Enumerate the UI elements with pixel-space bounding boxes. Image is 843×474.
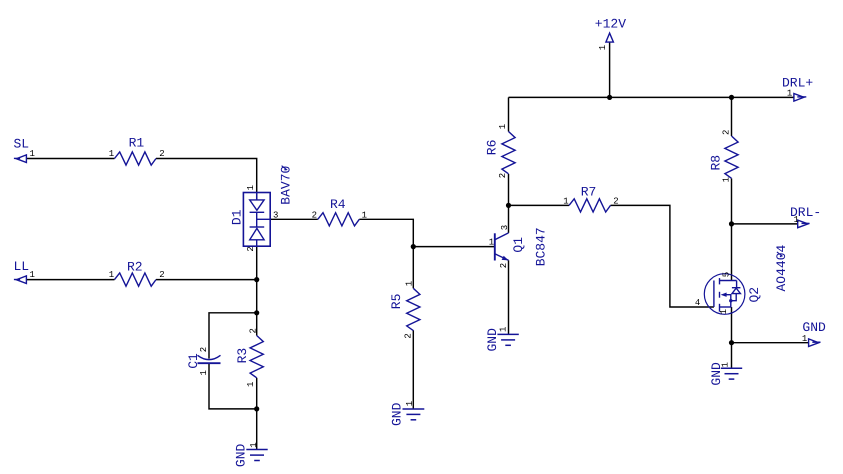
svg-text:1: 1 (719, 309, 729, 314)
svg-text:Q1: Q1 (511, 237, 526, 253)
svg-text:2: 2 (159, 149, 164, 159)
svg-text:1: 1 (499, 327, 509, 332)
svg-text:2: 2 (159, 270, 164, 280)
svg-text:4: 4 (695, 298, 700, 308)
svg-text:1: 1 (249, 442, 259, 447)
svg-text:1: 1 (563, 196, 568, 206)
svg-text:1: 1 (405, 401, 415, 406)
svg-text:GND: GND (234, 443, 249, 467)
svg-text:1: 1 (246, 185, 256, 190)
svg-text:D1: D1 (230, 209, 245, 225)
svg-text:1: 1 (498, 124, 508, 129)
svg-text:R7: R7 (581, 184, 597, 199)
svg-text:+12V: +12V (595, 16, 626, 31)
svg-text:1: 1 (362, 210, 367, 220)
svg-text:2: 2 (404, 333, 414, 338)
svg-text:1: 1 (30, 149, 35, 159)
svg-text:SL: SL (14, 137, 30, 152)
svg-text:5: 5 (722, 272, 732, 277)
svg-text:2: 2 (498, 173, 508, 178)
svg-text:2: 2 (246, 246, 256, 251)
svg-text:1: 1 (794, 215, 799, 225)
svg-text:2: 2 (499, 263, 509, 268)
svg-text:1: 1 (720, 362, 730, 367)
svg-text:GND: GND (802, 320, 826, 335)
svg-text:R6: R6 (484, 140, 499, 156)
svg-text:AO4404: AO4404 (774, 244, 789, 291)
svg-text:1: 1 (787, 88, 792, 98)
svg-text:1: 1 (802, 334, 807, 344)
svg-text:1: 1 (30, 270, 35, 280)
svg-text:Q2: Q2 (747, 287, 762, 303)
svg-text:R2: R2 (127, 259, 143, 274)
svg-text:2: 2 (249, 328, 259, 333)
svg-text:C1: C1 (186, 353, 201, 369)
svg-text:R1: R1 (129, 136, 145, 151)
svg-text:2: 2 (722, 130, 732, 135)
svg-text:3: 3 (500, 225, 510, 230)
svg-text:1: 1 (489, 238, 494, 248)
svg-text:3: 3 (273, 210, 278, 220)
svg-text:1: 1 (246, 382, 256, 387)
svg-text:2: 2 (199, 347, 209, 352)
svg-text:1: 1 (199, 370, 209, 375)
svg-text:LL: LL (14, 259, 30, 274)
svg-text:1: 1 (722, 177, 732, 182)
svg-text:BC847: BC847 (534, 227, 549, 266)
svg-text:1: 1 (404, 281, 414, 286)
svg-text:R8: R8 (709, 155, 724, 171)
svg-text:2: 2 (613, 196, 618, 206)
svg-text:1: 1 (109, 270, 114, 280)
svg-text:R3: R3 (235, 348, 250, 364)
svg-text:R4: R4 (330, 197, 346, 212)
svg-text:BAV70: BAV70 (279, 166, 294, 205)
svg-text:1: 1 (598, 45, 608, 50)
svg-text:GND: GND (390, 402, 405, 426)
svg-text:2: 2 (312, 210, 317, 220)
svg-text:R5: R5 (389, 294, 404, 310)
svg-text:1: 1 (109, 149, 114, 159)
